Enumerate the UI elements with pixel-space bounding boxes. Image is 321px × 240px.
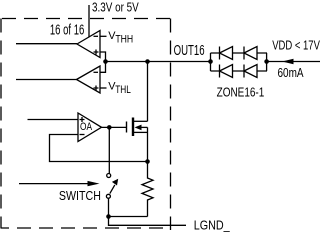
diode D1 bar <box>219 47 221 60</box>
svg-text:OUT16: OUT16 <box>174 43 205 59</box>
wire comparator2 input <box>16 79 77 81</box>
zone diode network right stub vertical <box>266 53 268 71</box>
diode D3 bar <box>219 65 221 78</box>
switch S1 top contact <box>107 174 111 178</box>
svg-text:THL: THL <box>115 84 131 96</box>
svg-text:60mA: 60mA <box>278 65 304 80</box>
U1 minus pin stub <box>100 35 107 37</box>
node junction dot drain <box>145 59 150 64</box>
U1 minus sign <box>94 35 99 37</box>
node junction dot source/feedback <box>145 159 150 164</box>
wire resistor bottom to switch bottom <box>109 216 148 218</box>
dashed enclosure top border <box>2 18 171 20</box>
resistor R1 <box>142 162 153 217</box>
diode D1 <box>220 47 233 60</box>
wire source vertical <box>147 127 149 161</box>
svg-text:SWITCH: SWITCH <box>59 189 101 203</box>
switch arm arrowhead <box>112 179 118 186</box>
transistor Q1 channel bar <box>132 118 134 137</box>
node junction dot switch bottom <box>106 214 111 219</box>
wire switch bottom vertical <box>108 198 110 216</box>
node junction dot zone right <box>264 59 269 64</box>
wire zone bottom row <box>211 70 268 72</box>
U1 plus pin stub <box>100 52 106 62</box>
diode D2 bar <box>243 47 245 60</box>
svg-text:OA: OA <box>80 121 93 133</box>
wire OA output to gate <box>102 126 127 128</box>
wire OA feedback <box>50 135 148 162</box>
diode D3 <box>220 65 233 78</box>
Q1 source stub <box>134 131 148 133</box>
switch S1 arm <box>110 185 115 194</box>
comparator U2 VTHL <box>77 66 101 93</box>
svg-text:3.3V or 5V: 3.3V or 5V <box>92 1 139 15</box>
wire zone top row <box>211 52 268 54</box>
wire OA plus input <box>28 119 79 121</box>
svg-text:THH: THH <box>115 33 133 45</box>
U2 plus sign <box>94 86 99 91</box>
VDD arrowhead <box>282 59 294 65</box>
zone diode network left stub vertical <box>210 53 212 71</box>
U3 plus sign <box>80 117 85 122</box>
U1 plus sign <box>94 50 99 55</box>
op-amp U3 OA <box>78 113 102 142</box>
Q1 body stub <box>140 126 148 128</box>
Q1 drain stub <box>134 120 148 122</box>
supply wire 3.3V/5V <box>88 5 90 37</box>
Q1 body arrow <box>135 125 142 131</box>
diode D2 <box>244 47 257 60</box>
svg-text:ZONE16-1: ZONE16-1 <box>217 85 265 100</box>
U2 minus pin stub <box>100 62 106 73</box>
diode D4 <box>244 65 257 78</box>
wire SWITCH input <box>19 183 89 185</box>
switch S1 bottom contact <box>106 194 110 198</box>
U2 minus sign <box>94 71 99 73</box>
U3 minus sign <box>80 134 85 136</box>
dashed enclosure right border <box>170 19 172 231</box>
wire to LGND <box>109 217 187 226</box>
svg-text:16 of 16: 16 of 16 <box>50 22 84 39</box>
wire comparator1 input <box>16 43 77 45</box>
svg-text:LGND_: LGND_ <box>194 217 231 232</box>
SWITCH arrowhead <box>88 181 100 186</box>
dashed enclosure bottom border <box>1 227 171 229</box>
wire OUT16 net <box>106 61 211 63</box>
diode D4 bar <box>243 65 245 78</box>
svg-text:VDD < 17V: VDD < 17V <box>272 38 320 53</box>
node junction dot U1/U2 <box>103 59 108 64</box>
comparator U1 VTHH <box>77 31 100 58</box>
U2 plus pin stub <box>100 87 107 89</box>
wire drain vertical <box>147 62 149 122</box>
wire VDD input <box>267 61 320 63</box>
node junction dot OA output <box>107 125 112 130</box>
wire gate node vertical to switch <box>108 127 110 173</box>
node junction dot zone left <box>208 59 213 64</box>
dashed enclosure left border <box>0 19 2 229</box>
transistor Q1 gate bar <box>126 122 128 133</box>
